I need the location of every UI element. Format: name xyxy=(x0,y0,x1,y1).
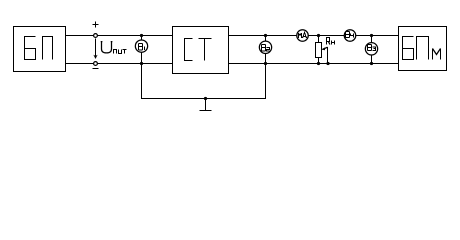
wire stem to resistor xyxy=(318,36,320,43)
voltmeter В2 xyxy=(259,41,271,53)
node ground bus xyxy=(204,97,207,100)
node top rail at В3 xyxy=(370,34,373,37)
node top rail at В2 xyxy=(264,34,267,37)
wire stem to В2 xyxy=(265,36,267,42)
node bottom rail at Rн xyxy=(317,62,320,65)
wire В1 to bottom rail xyxy=(141,52,143,63)
wire БП to minus terminal xyxy=(66,63,94,65)
arrowhead of Uпит xyxy=(93,55,97,59)
label В2 xyxy=(262,45,270,52)
resistor Rн (variable) xyxy=(316,43,322,58)
wire plus terminal to СТ xyxy=(98,35,173,37)
label мА middle strokes xyxy=(299,33,302,35)
label СТ letter С xyxy=(185,39,193,61)
power supply block БП xyxy=(14,27,66,72)
ground bus wire xyxy=(142,64,266,99)
wire В3 to bottom rail xyxy=(371,55,373,64)
plus terminal xyxy=(94,34,98,38)
wire В4 to БПм xyxy=(356,35,399,37)
wire stem to В1 xyxy=(141,36,143,41)
wire БП to plus terminal xyxy=(66,35,94,37)
label subscript пит xyxy=(114,50,127,54)
wire В2 to bottom rail xyxy=(265,54,267,64)
label Rн xyxy=(327,38,335,45)
ground symbol xyxy=(200,99,212,111)
voltmeter В1 xyxy=(135,40,147,52)
voltage arrow Uпит xyxy=(95,39,97,59)
label БП letter Б xyxy=(25,37,36,60)
label U xyxy=(101,42,113,53)
wire СТ to мА (top rail) xyxy=(229,35,297,37)
voltmeter В4 xyxy=(344,30,356,42)
wire мА to В4 xyxy=(308,35,344,37)
wire minus terminal to СТ xyxy=(98,63,173,65)
plus sign xyxy=(93,22,99,28)
stabilizer block СТ xyxy=(173,27,229,74)
load block БПм xyxy=(399,27,447,71)
label R leg xyxy=(328,42,330,45)
wire stem to В3 xyxy=(371,36,373,43)
node bottom rail at В1 xyxy=(140,62,143,65)
label БПм letter П xyxy=(417,37,429,60)
label БП letter П xyxy=(43,37,53,60)
minus terminal xyxy=(94,62,98,66)
label В1 xyxy=(139,44,145,51)
minus sign xyxy=(93,68,99,70)
label БПм subscript м xyxy=(433,49,441,60)
milliammeter мА xyxy=(297,30,309,42)
node bottom rail at В2 xyxy=(264,62,267,65)
wire resistor to bottom rail xyxy=(318,58,320,64)
node bottom rail at В3 xyxy=(370,62,373,65)
wire СТ to БПм (bottom rail) xyxy=(229,63,399,65)
voltmeter В3 xyxy=(365,43,377,55)
wiper arrowhead xyxy=(321,48,325,51)
label СТ letter Т xyxy=(199,39,212,61)
label В4 xyxy=(346,32,354,38)
label БПм letter Б xyxy=(403,37,414,60)
node bottom rail at wiper xyxy=(326,62,329,65)
label В3 xyxy=(368,45,376,51)
wiper arm vertical wire xyxy=(327,47,329,64)
wiper arm diagonal xyxy=(324,47,328,49)
node top rail at В1 xyxy=(140,34,143,37)
label БПм subscript м diagonals xyxy=(433,49,441,55)
node top rail at Rн xyxy=(317,34,320,37)
label мА xyxy=(299,32,307,38)
